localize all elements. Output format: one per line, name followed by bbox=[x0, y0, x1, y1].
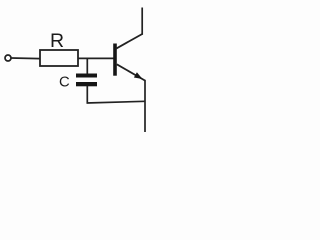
svg-text:R: R bbox=[50, 30, 64, 52]
svg-text:C: C bbox=[59, 74, 70, 90]
